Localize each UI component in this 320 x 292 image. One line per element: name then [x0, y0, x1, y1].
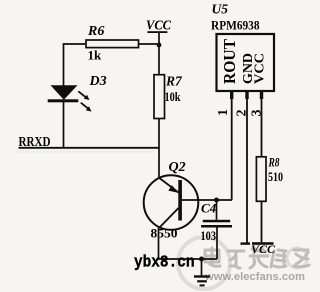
svg-text:RPM6938: RPM6938 — [211, 18, 260, 33]
svg-text:www.elecfans.com: www.elecfans.com — [204, 271, 305, 283]
wire D3 cathode down to RRXD rail — [63, 102, 65, 148]
power VCC (top) — [146, 19, 172, 46]
svg-text:8550: 8550 — [151, 227, 178, 241]
svg-text:U5: U5 — [212, 2, 229, 17]
resistor R7 — [154, 74, 183, 119]
svg-text:ybx8.cn: ybx8.cn — [134, 254, 195, 273]
resistor R6 — [86, 24, 139, 63]
resistor R8 — [256, 155, 283, 202]
wire R7 down to Q2 emitter — [158, 119, 160, 179]
ground — [194, 259, 210, 286]
node: VCC/R6/R7 junction — [157, 43, 162, 48]
svg-text:103: 103 — [201, 229, 217, 243]
U5 pin 3 (VCC) — [250, 91, 265, 157]
svg-text:ROUT: ROUT — [220, 39, 239, 84]
wire Q2 base to U5 pin 1 — [182, 199, 232, 201]
IC U5 RPM6938 — [211, 2, 274, 92]
svg-text:D3: D3 — [89, 74, 107, 89]
svg-text:2: 2 — [235, 110, 250, 117]
svg-text:R6: R6 — [87, 24, 104, 39]
U5 pin 1 (ROUT) — [216, 91, 233, 200]
svg-text:R7: R7 — [165, 74, 183, 89]
transistor Q2 (PNP 8550) — [144, 160, 199, 241]
node: base/C4/pin1 junction — [214, 198, 219, 203]
wire R8 down to VCC — [261, 201, 263, 242]
svg-text:510: 510 — [268, 169, 283, 184]
wire Q2 collector down to ground rail — [159, 228, 218, 259]
wire RRXD rail — [19, 147, 160, 149]
node: ground junction — [199, 257, 204, 262]
svg-text:1: 1 — [216, 109, 231, 116]
U5 pin 2 (GND) — [235, 91, 250, 245]
power VCC (bottom) — [251, 242, 276, 256]
svg-text:1k: 1k — [88, 48, 103, 63]
wire VCC junction down to R7 — [158, 45, 160, 75]
svg-text:10k: 10k — [165, 89, 182, 104]
svg-text:VCC: VCC — [251, 242, 276, 256]
wire R6 right lead — [139, 43, 160, 45]
svg-text:3: 3 — [250, 110, 265, 117]
svg-text:Q2: Q2 — [169, 160, 186, 175]
svg-text:VCC: VCC — [253, 53, 268, 84]
LED D3 — [48, 74, 107, 112]
svg-text:R8: R8 — [268, 155, 280, 170]
svg-text:C4: C4 — [201, 201, 217, 216]
wire R6 left lead to D3 anode — [64, 44, 87, 86]
capacitor C4 — [201, 200, 233, 259]
